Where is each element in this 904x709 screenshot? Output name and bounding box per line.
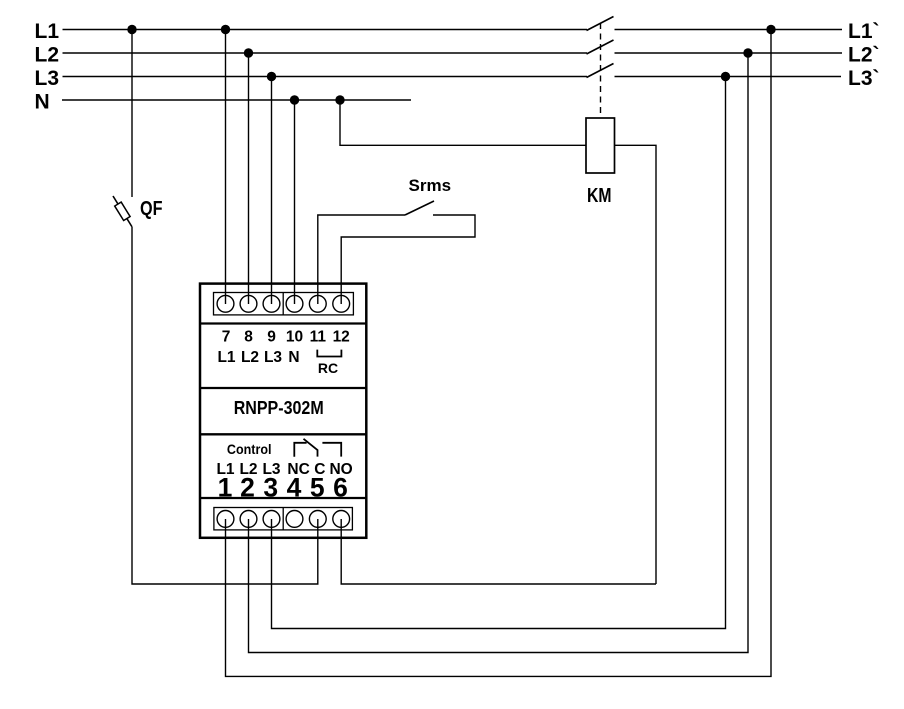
pin name row L1 L2 L3 NC C NO [216, 461, 352, 478]
svg-text:2: 2 [240, 472, 255, 502]
svg-text:11: 11 [310, 329, 327, 346]
wire terminal 3 to L3` node [272, 77, 726, 629]
pin name row L1 L2 L3 N [217, 349, 299, 366]
svg-text:Control: Control [227, 441, 272, 457]
wire L2 to terminal 8 [248, 53, 250, 304]
svg-text:1: 1 [218, 472, 233, 502]
wire Srms right to terminal 12 [341, 215, 475, 304]
wire terminal 6 to KM coil node [341, 519, 656, 584]
relay section divider above bottom terminals [200, 497, 366, 499]
svg-text:5: 5 [310, 472, 325, 502]
wire L3 to terminal 9 [271, 77, 273, 305]
svg-text:L3: L3 [264, 349, 282, 366]
svg-text:L2: L2 [35, 43, 60, 66]
terminal 8 screw [240, 295, 257, 312]
svg-text:RNPP-302M: RNPP-302M [234, 397, 324, 418]
svg-text:KM: KM [587, 185, 612, 207]
bottom terminal strip frame [214, 508, 353, 530]
KM coil [586, 118, 615, 173]
relay output contact symbol NC side bracket [294, 443, 306, 457]
terminal 3 screw [263, 511, 280, 528]
svg-text:L2: L2 [241, 349, 259, 366]
svg-text:RC: RC [318, 360, 338, 376]
svg-text:N: N [35, 90, 50, 113]
switch Srms blade [405, 201, 434, 215]
breaker QF body rectangle [115, 202, 130, 220]
wire N rail [62, 99, 411, 101]
wire terminal 1 to L1` node [226, 30, 772, 677]
node junction dot L1/QF [127, 25, 136, 34]
node junction dot L2/terminal8 [244, 48, 253, 57]
top terminal strip frame [214, 293, 354, 315]
relay output contact symbol common blade [304, 439, 318, 457]
wire QF to bottom terminal 5 [132, 227, 318, 585]
wire L1 rail left segment [63, 29, 588, 31]
svg-text:9: 9 [267, 329, 276, 346]
node junction dot N/terminal10 [290, 95, 299, 104]
svg-text:6: 6 [333, 472, 348, 502]
terminal 6 screw [333, 511, 350, 528]
svg-text:L1: L1 [217, 349, 235, 366]
wire L2` rail right segment [615, 52, 843, 54]
svg-text:10: 10 [286, 329, 303, 346]
node junction dot L2` feedback [743, 48, 752, 57]
terminal 2 screw [240, 511, 257, 528]
RC bracket symbol [317, 350, 341, 357]
node junction dot L3` feedback [721, 72, 730, 81]
bottom terminal strip middle divider [282, 508, 284, 530]
svg-text:QF: QF [140, 198, 163, 220]
terminal 9 screw [263, 295, 280, 312]
wire L1` rail right segment [615, 29, 843, 31]
contactor KM contact blade on L2 [587, 40, 614, 54]
terminal 5 screw [309, 511, 326, 528]
svg-text:L1`: L1` [848, 20, 880, 43]
svg-text:L3`: L3` [848, 67, 880, 90]
wire L3 rail left segment [63, 76, 588, 78]
svg-text:Srms: Srms [409, 176, 452, 195]
terminal 1 screw [217, 511, 234, 528]
node junction dot N/KM coil branch [335, 95, 344, 104]
relay section divider under top terminals [200, 322, 366, 324]
terminal 12 screw [333, 295, 350, 312]
wire from N branch to KM coil left [340, 100, 586, 145]
terminal 11 screw [309, 295, 326, 312]
relay section divider below RNPP-302M [200, 433, 366, 435]
svg-text:4: 4 [287, 472, 302, 502]
wire N to terminal 10 [294, 100, 296, 304]
top terminal strip middle divider [282, 293, 284, 315]
wire L3` rail right segment [615, 76, 842, 78]
pin number row 1-6 [218, 472, 348, 502]
svg-text:N: N [288, 349, 299, 366]
terminal 10 screw [286, 295, 303, 312]
contactor KM contact blade on L3 [587, 64, 614, 78]
node junction dot L1/terminal7 [221, 25, 230, 34]
wire from KM coil right to node x656 [615, 145, 657, 584]
svg-text:L1: L1 [35, 20, 60, 43]
wire L1 to terminal 7 [225, 30, 227, 305]
node junction dot L3/terminal9 [267, 72, 276, 81]
terminal 7 screw [217, 295, 234, 312]
wire L2 rail left segment [63, 52, 588, 54]
breaker QF blade [113, 196, 132, 227]
node junction dot L1` feedback [766, 25, 775, 34]
contactor KM contact blade on L1 [587, 17, 614, 31]
wire terminal 2 to L2` node [249, 53, 749, 653]
wire terminal 11 to Srms left [318, 215, 405, 304]
wire QF branch from L1 down to breaker [131, 30, 133, 198]
relay output contact symbol NO side bracket [322, 443, 341, 457]
relay RNPP-302M body outline [200, 284, 366, 538]
svg-text:12: 12 [333, 329, 350, 346]
pin number row 7-12 [222, 329, 350, 346]
relay section divider above RNPP-302M [200, 387, 366, 389]
KM mechanical linkage dashed line [600, 23, 602, 118]
svg-text:L2`: L2` [848, 43, 880, 66]
terminal 4 screw [286, 511, 303, 528]
svg-text:8: 8 [244, 329, 253, 346]
svg-text:7: 7 [222, 329, 231, 346]
svg-text:L3: L3 [35, 67, 60, 90]
svg-text:3: 3 [263, 472, 278, 502]
